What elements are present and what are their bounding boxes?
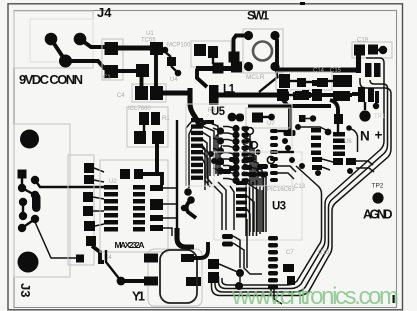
svg-text:N: N xyxy=(360,129,370,144)
wire SW1-2 down xyxy=(275,36,277,71)
power trace to C19 xyxy=(277,67,358,72)
svg-text:R1: R1 xyxy=(162,116,170,122)
wire J4-2 to C1 xyxy=(80,39,112,47)
svg-text:www.cntronics.com: www.cntronics.com xyxy=(231,283,399,310)
via pad big xyxy=(359,110,370,121)
pad J3 big top xyxy=(20,130,39,149)
svg-text:MAX232A: MAX232A xyxy=(115,240,145,250)
bottom bundle xyxy=(222,278,287,285)
pads right of U3 xyxy=(283,264,294,272)
via column right of U5 xyxy=(270,129,278,182)
svg-text:TP2: TP2 xyxy=(372,183,384,190)
wires from resistor pack xyxy=(94,168,104,172)
U5 fan-out traces xyxy=(202,120,218,176)
svg-text:U7: U7 xyxy=(267,121,275,127)
inductor bank xyxy=(358,87,365,102)
Y1 guard loop xyxy=(160,250,197,303)
IC U5 inner pad cluster xyxy=(217,125,249,184)
U2 top pads xyxy=(120,169,130,179)
pad R4 circle xyxy=(117,277,126,286)
regulator U5 area wire xyxy=(248,104,331,108)
IC U8 outline xyxy=(127,107,168,147)
wire C4 to via xyxy=(162,90,189,95)
svg-text:C15: C15 xyxy=(330,68,342,74)
IC U5 left pad column xyxy=(191,118,203,180)
wire via down S-curve xyxy=(190,88,199,126)
wire D1 down to C4 xyxy=(154,55,158,87)
via pad xyxy=(229,52,240,63)
wire SW1 to via xyxy=(234,36,249,53)
U3 bottom left pads xyxy=(208,234,233,283)
svg-text:AGND: AGND xyxy=(363,208,393,222)
capacitor C17 pads xyxy=(312,157,322,162)
svg-text:C13: C13 xyxy=(294,184,306,190)
wire L1 right xyxy=(218,92,280,97)
resistor R7 pads xyxy=(299,115,306,122)
wire C19 down xyxy=(356,48,361,73)
wire bundle right edge A xyxy=(366,58,384,141)
supervisor U4 pads xyxy=(191,41,231,67)
wire L1 junction right xyxy=(289,94,310,96)
pad J4-2 xyxy=(74,33,87,46)
svg-text:C1: C1 xyxy=(103,75,111,81)
svg-text:MCLR: MCLR xyxy=(246,74,265,81)
svg-text:9VDC CONN: 9VDC CONN xyxy=(19,72,83,87)
wire from U5 to right xyxy=(278,130,290,132)
silkscreen outlines center xyxy=(186,104,292,186)
wire C1 to C2 xyxy=(117,69,137,73)
wire R4 to Y1 xyxy=(121,279,144,283)
connector J4 outline xyxy=(14,11,93,68)
wire U2 top xyxy=(143,174,162,185)
pad SW1-3 xyxy=(244,62,253,71)
thick elbow traces xyxy=(177,228,194,247)
wire bundle bend A xyxy=(291,141,384,289)
corner mark 1 xyxy=(393,295,395,303)
svg-text:U4: U4 xyxy=(170,77,178,83)
svg-text:C10: C10 xyxy=(318,250,330,256)
wire bundle bend C xyxy=(299,149,391,296)
wire R4 diag xyxy=(106,250,121,281)
svg-text:R2: R2 xyxy=(208,108,216,114)
wire down from R xyxy=(155,144,159,170)
right side resistor bank pads xyxy=(293,90,345,156)
svg-text:PIC16C63: PIC16C63 xyxy=(267,187,295,193)
U5 left diagonal fan xyxy=(186,121,192,186)
IC U8 pads xyxy=(139,112,149,125)
diode D2 row xyxy=(276,72,332,90)
svg-text:J4: J4 xyxy=(97,5,112,20)
capacitor C4 xyxy=(132,84,166,102)
capacitor near U5 xyxy=(228,113,237,122)
U7 outline xyxy=(246,108,290,128)
U3 left pad column xyxy=(236,181,247,218)
wire J3 to R5 xyxy=(35,222,77,258)
svg-text:MCP100: MCP100 xyxy=(167,43,191,49)
svg-text:C14: C14 xyxy=(313,68,325,74)
wire bundle bend B xyxy=(295,145,388,292)
pad J3 big bottom xyxy=(18,252,39,273)
U6 pads xyxy=(333,158,356,165)
capacitor C20 pads xyxy=(365,63,372,77)
svg-text:U2: U2 xyxy=(109,179,117,185)
U2 left pad column xyxy=(104,185,118,232)
U3 right pad column xyxy=(268,236,278,290)
wire elbow C16 xyxy=(330,100,338,118)
speck xyxy=(300,2,305,5)
connector J3 outline xyxy=(14,124,70,277)
svg-text:U1: U1 xyxy=(146,31,154,37)
wire SW1 gnd bus xyxy=(196,66,241,71)
capacitor C2 xyxy=(136,64,149,77)
svg-text:C4: C4 xyxy=(117,93,125,99)
right diag bundle to vertical xyxy=(287,166,322,285)
wires U2 to vertical xyxy=(163,187,177,189)
U2 right pads xyxy=(150,185,163,231)
capacitor C1 xyxy=(102,39,123,80)
long vertical trace xyxy=(177,120,184,246)
wire J4-1 to J4-3 xyxy=(51,39,66,61)
testpoint TP2 pad xyxy=(372,192,383,203)
svg-text:C7: C7 xyxy=(286,250,294,256)
big pad block xyxy=(333,75,352,87)
regulator U1 pads xyxy=(162,47,169,54)
row below xyxy=(277,89,288,101)
wire bundle right edge B xyxy=(370,80,388,145)
Y1 pads xyxy=(144,254,158,263)
svg-text:SW1: SW1 xyxy=(247,9,269,23)
pads between U5 and U3 xyxy=(282,138,288,144)
svg-text:U3: U3 xyxy=(272,201,286,213)
wire J4-3 to C1 xyxy=(66,61,113,70)
pad SW1-1 xyxy=(244,31,253,40)
wire C2 down to C4 xyxy=(140,77,144,87)
bus U5 to U3 xyxy=(245,178,247,236)
U3 area traces xyxy=(247,183,258,232)
wire bundle right edge C xyxy=(360,78,391,149)
pad SW1-2 xyxy=(270,31,279,40)
pad J4-1 xyxy=(45,33,58,46)
pad flare C9 xyxy=(284,130,296,136)
wire bus to L1 xyxy=(197,69,207,88)
J3 pin pads xyxy=(18,170,27,179)
switch button ring xyxy=(253,42,272,61)
U2 mid pad column xyxy=(133,185,145,232)
diode D1 xyxy=(150,42,163,55)
via ring pads xyxy=(247,128,254,135)
pad J4-3 xyxy=(59,55,72,68)
svg-text:TP1: TP1 xyxy=(374,114,386,120)
wire SW1-4 diagonal xyxy=(259,67,278,93)
svg-text:TC55: TC55 xyxy=(141,38,156,44)
svg-text:Y1: Y1 xyxy=(132,290,145,304)
svg-text:+: + xyxy=(375,128,383,143)
pad SW1-4 xyxy=(270,62,279,71)
via pad xyxy=(295,124,301,130)
svg-text:U6: U6 xyxy=(344,139,352,145)
wire C1 to D1 xyxy=(117,45,151,50)
pad near N xyxy=(346,125,352,131)
svg-text:J3: J3 xyxy=(18,283,33,297)
resistor pack column xyxy=(68,155,94,265)
wire J3 pads xyxy=(22,174,35,195)
svg-text:C19: C19 xyxy=(357,38,369,44)
U3 top pad rows xyxy=(216,157,268,177)
via pads below U5 xyxy=(184,188,192,196)
